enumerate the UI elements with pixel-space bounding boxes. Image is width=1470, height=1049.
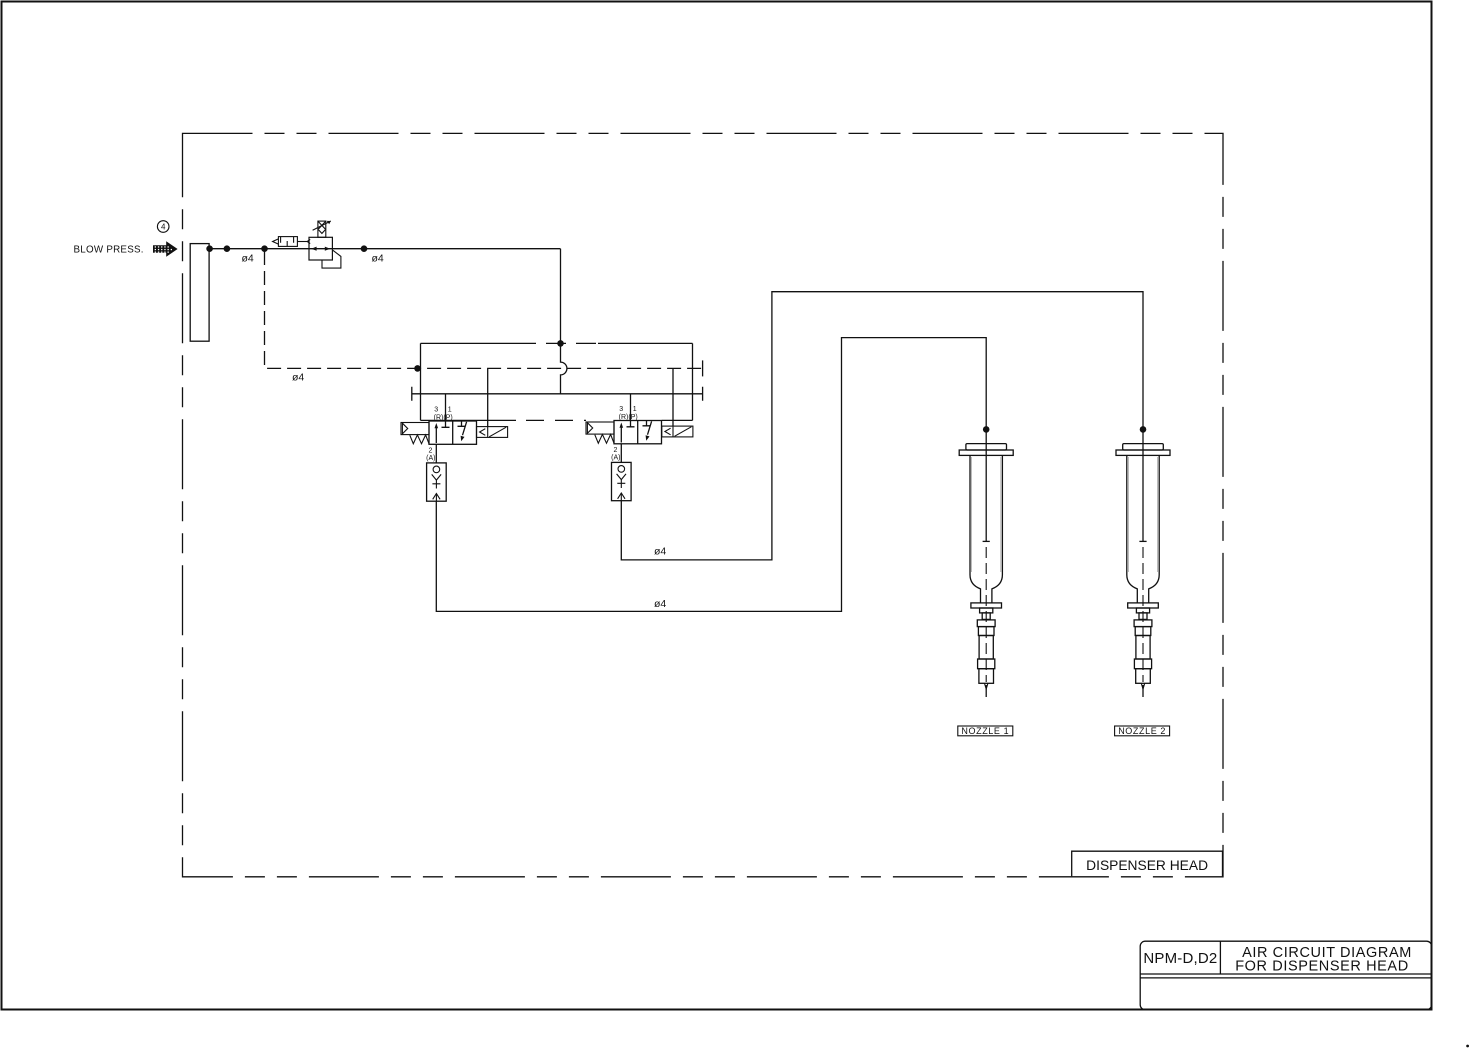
title block bbox=[1140, 941, 1431, 1010]
node tank outlet bbox=[206, 245, 213, 252]
syringe 1 bbox=[959, 444, 1013, 697]
svg-text:BLOW PRESS.: BLOW PRESS. bbox=[74, 245, 144, 256]
spring SV1 bbox=[410, 435, 429, 444]
pilot actuator SV2 bbox=[586, 422, 614, 434]
svg-text:ø4: ø4 bbox=[292, 372, 304, 384]
manifold bottom edge right section bbox=[662, 419, 693, 421]
flow control FC1 bbox=[427, 463, 447, 501]
pilot channel end tick bbox=[702, 360, 704, 376]
spring SV2 bbox=[595, 434, 614, 443]
valve SV2 (3-port solenoid valve) bbox=[586, 368, 693, 462]
svg-text:ø4: ø4 bbox=[372, 253, 384, 265]
filter F1 bbox=[273, 237, 311, 247]
svg-text:NOZZLE 2: NOZZLE 2 bbox=[1118, 726, 1166, 736]
manifold side edges bbox=[421, 343, 693, 420]
svg-text:4: 4 bbox=[161, 223, 166, 232]
svg-text:1: 1 bbox=[448, 407, 452, 414]
manifold bottom edge dashed section bbox=[526, 419, 586, 421]
svg-text:(A): (A) bbox=[426, 455, 435, 462]
manifold top edge bbox=[421, 342, 693, 344]
wire supply drop with hop bbox=[561, 343, 567, 393]
wire pilot stub SV2 bbox=[672, 368, 674, 426]
svg-text:2: 2 bbox=[428, 447, 432, 454]
svg-text:1: 1 bbox=[633, 406, 637, 413]
node regulator outlet bbox=[361, 245, 368, 252]
svg-text:DISPENSER HEAD: DISPENSER HEAD bbox=[1086, 858, 1208, 873]
node pilot branch bbox=[261, 245, 268, 252]
manifold bottom edge bbox=[421, 419, 517, 421]
svg-text:ø4: ø4 bbox=[654, 598, 666, 610]
wire main supply bbox=[209, 249, 560, 344]
label NOZZLE 1 bbox=[958, 726, 1013, 736]
wire W2 to nozzle 2 bbox=[621, 292, 1143, 560]
blow pressure inlet arrow bbox=[153, 241, 178, 257]
manifold supply rail bbox=[412, 387, 703, 401]
regulator PR1 bbox=[309, 221, 341, 268]
wire port2 SV2 bbox=[620, 444, 622, 463]
valve body SV1 bbox=[429, 421, 477, 444]
node syringe 2 inlet bbox=[1140, 426, 1147, 433]
svg-text:2: 2 bbox=[613, 447, 617, 454]
manifold top edge dashed section bbox=[516, 342, 598, 344]
flow control FC2 bbox=[612, 462, 632, 500]
svg-text:FOR DISPENSER HEAD: FOR DISPENSER HEAD bbox=[1235, 958, 1409, 974]
wire W1 to nozzle 1 bbox=[436, 338, 986, 612]
node manifold inlet bbox=[557, 340, 564, 347]
svg-text:(A): (A) bbox=[611, 455, 620, 462]
svg-text:ø4: ø4 bbox=[654, 546, 666, 558]
node pilot at manifold bbox=[414, 365, 421, 372]
svg-text:3: 3 bbox=[434, 407, 438, 414]
manifold block bbox=[412, 343, 703, 420]
wire port1 stub SV1 bbox=[445, 394, 447, 421]
dispenser head enclosure (phantom dashed box) bbox=[183, 133, 1224, 876]
solenoid SV2 bbox=[662, 426, 693, 437]
label NOZZLE 2 bbox=[1115, 726, 1170, 736]
wire pilot stub SV1 bbox=[487, 368, 489, 426]
wire port1 stub SV2 bbox=[630, 394, 632, 421]
label box DISPENSER HEAD bbox=[1072, 851, 1223, 876]
node syringe 1 inlet bbox=[983, 426, 990, 433]
pilot actuator SV1 bbox=[401, 423, 429, 435]
valve body SV2 bbox=[614, 421, 662, 444]
valve SV1 (3-port solenoid valve) bbox=[401, 368, 508, 463]
wire pilot line ø4 (dashed) bbox=[265, 251, 703, 368]
wire port2 SV1 bbox=[435, 444, 437, 463]
speck bbox=[1466, 1045, 1469, 1048]
svg-text:NPM-D,D2: NPM-D,D2 bbox=[1143, 950, 1217, 967]
svg-text:3: 3 bbox=[619, 406, 623, 413]
svg-text:ø4: ø4 bbox=[242, 253, 254, 265]
buffer tank bbox=[190, 244, 209, 342]
balloon callout 4 bbox=[157, 221, 169, 233]
solenoid SV1 bbox=[477, 427, 508, 438]
node junction bbox=[224, 245, 231, 252]
syringe 2 bbox=[1116, 444, 1170, 697]
svg-text:NOZZLE 1: NOZZLE 1 bbox=[961, 726, 1009, 736]
